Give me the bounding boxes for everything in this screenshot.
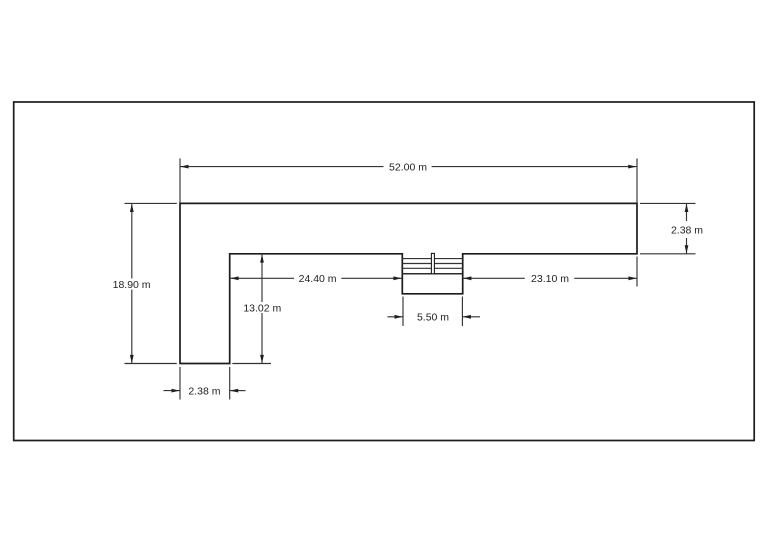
dimension 24.40 m : dimension line left part (230, 277, 294, 279)
svg-text:23.10 m: 23.10 m (531, 273, 569, 285)
dimension 52.00 m : left extension line (179, 159, 181, 204)
dimension 13.02 m : top arrowhead (260, 254, 264, 262)
svg-text:24.40 m: 24.40 m (299, 273, 337, 285)
stair tread line 4 (landing top) (402, 273, 462, 275)
dimension 13.02 m : bottom extension line (232, 363, 271, 365)
dimension 13.02 m : dimension line lower part (261, 313, 263, 363)
dimension 24.40 m : right arrowhead (393, 276, 401, 280)
dimension 2.38 m bottom-left : left extension line (179, 367, 181, 400)
dimension 18.90 m : top arrowhead (130, 204, 134, 212)
dimension 5.50 m : right arrowhead (pointing left) (463, 315, 471, 319)
dimension 2.38 m right : top extension line (640, 202, 696, 204)
dimension 24.40 m : left arrowhead (230, 276, 238, 280)
pool wall outline (L-shaped plan) (180, 203, 637, 363)
dimension 2.38 m right : top arrowhead (685, 204, 689, 212)
dimension 5.50 m : left extension line (402, 297, 404, 327)
dimension 18.90 m : bottom arrowhead (130, 355, 134, 363)
dimension 13.02 m : dimension line upper part (261, 255, 263, 302)
dimension 2.38 m bottom-left : right tail line (230, 390, 246, 392)
dimension 23.10 m : right extension line (636, 257, 638, 287)
dimension 23.10 m : left arrowhead (463, 276, 471, 280)
dimension 23.10 m : dimension line right part (574, 277, 636, 279)
dimension 52.00 m : left arrowhead (180, 165, 188, 169)
dimension 2.38 m right : dimension line lower part (686, 238, 688, 253)
dimension 2.38 m right : bottom arrowhead (685, 245, 689, 253)
dimension 18.90 m : dimension line lower part (131, 290, 133, 364)
stair center handrail (431, 253, 434, 273)
dimension 52.00 m : dimension line right part (432, 166, 637, 168)
svg-text:2.38 m: 2.38 m (671, 224, 703, 236)
dimension 5.50 m : right extension line (461, 297, 463, 327)
dimension 23.10 m : right arrowhead (628, 276, 636, 280)
svg-text:52.00 m: 52.00 m (389, 161, 427, 173)
dimension 23.10 m : dimension line left part (463, 277, 525, 279)
dimension 2.38 m bottom-left : right extension line (229, 367, 231, 400)
dimension 5.50 m : right tail line (462, 316, 480, 318)
dimension 5.50 m : left arrowhead (pointing right) (395, 315, 403, 319)
dimension 2.38 m right : bottom extension line (640, 253, 696, 255)
svg-text:2.38 m: 2.38 m (188, 385, 220, 397)
dimension 2.38 m right : dimension line upper part (686, 204, 688, 221)
svg-text:5.50 m: 5.50 m (417, 312, 449, 324)
stair tread line 1 (402, 258, 462, 260)
dimension 2.38 m bottom-left : right arrowhead (pointing left) (230, 389, 238, 393)
svg-text:13.02 m: 13.02 m (243, 302, 281, 314)
stair tread line 3 (402, 267, 462, 269)
dimension 2.38 m bottom-left : left arrowhead (pointing right) (172, 389, 180, 393)
stair tread line 2 (402, 263, 462, 265)
dimension 5.50 m : left tail line (388, 316, 404, 318)
dimension 13.02 m : bottom arrowhead (260, 355, 264, 363)
dimension 52.00 m : right arrowhead (628, 165, 637, 169)
dimension 52.00 m : right extension line (636, 159, 638, 204)
dimension 2.38 m bottom-left : left tail line (164, 390, 181, 392)
svg-text:18.90 m: 18.90 m (113, 279, 151, 291)
dimension 24.40 m : dimension line right part (341, 277, 402, 279)
dimension 18.90 m : bottom extension line (125, 363, 177, 365)
drawing border frame (14, 102, 755, 441)
dimension 18.90 m : top extension line (125, 202, 177, 204)
dimension 18.90 m : dimension line upper part (131, 204, 133, 279)
dimension 52.00 m : dimension line left part (180, 166, 384, 168)
